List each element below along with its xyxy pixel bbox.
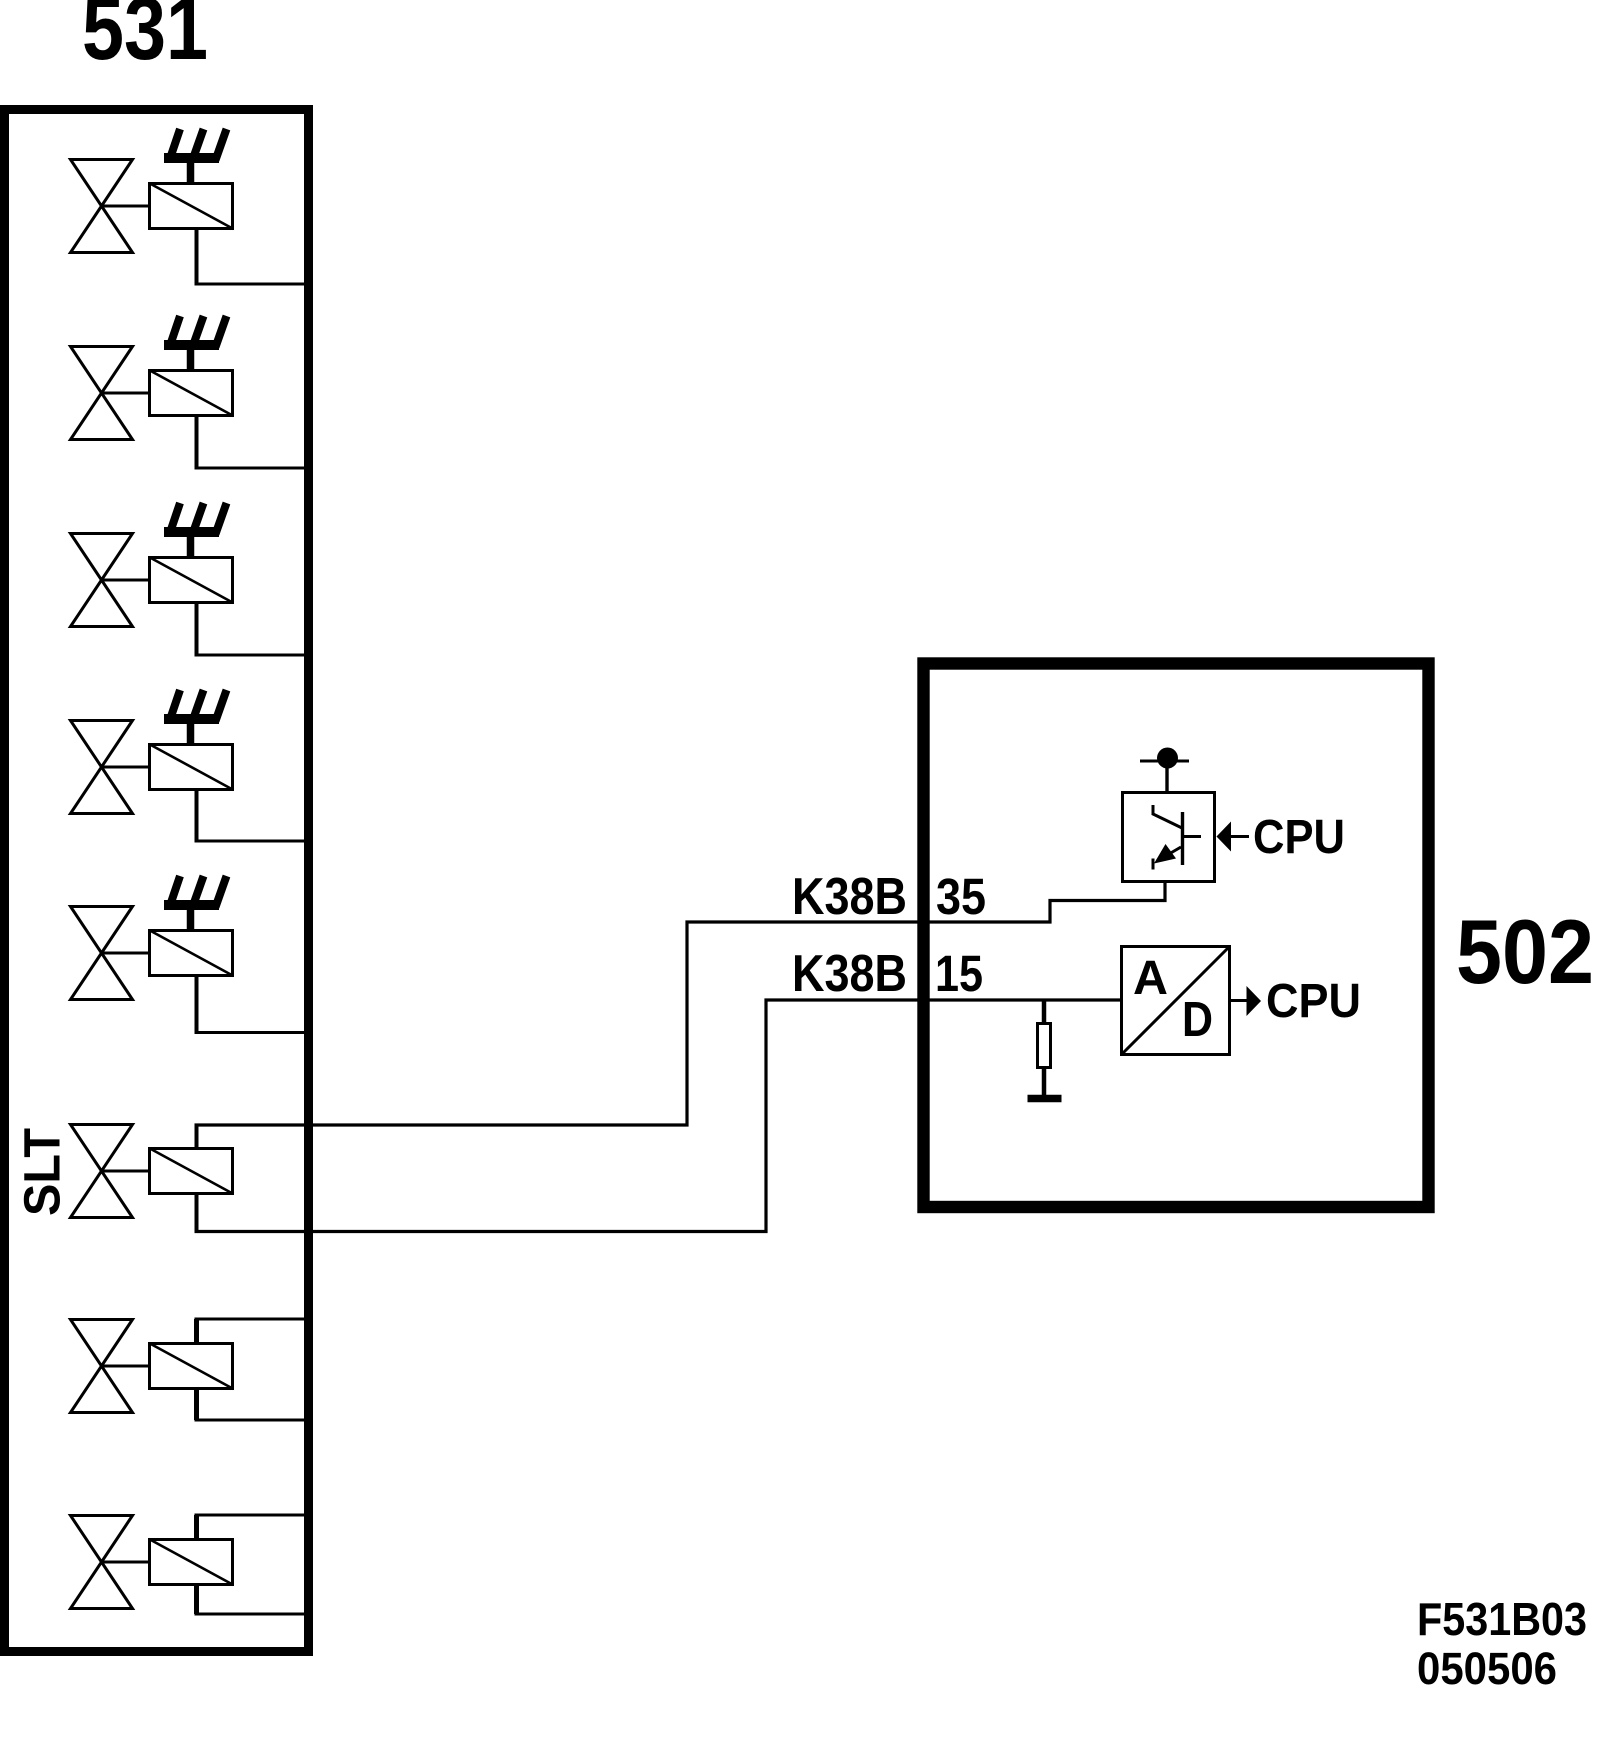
relay coil L7 (box with diagonal)	[149, 1343, 234, 1389]
valve V7 (solenoid valve symbol, two triangles)	[71, 1320, 133, 1413]
pin number 35	[936, 868, 986, 925]
svg-text:A: A	[1133, 952, 1168, 1005]
wire SLT to pin 15 (net K38B-15)	[195, 1000, 1123, 1232]
label A	[1133, 952, 1168, 1005]
relay coil L2 (box with diagonal)	[149, 370, 234, 416]
A/D converter U2	[1122, 947, 1230, 1055]
heater element symbol E5 (trident)	[164, 876, 227, 931]
connector label K38B (pin 35)	[792, 868, 907, 926]
valve V4 (solenoid valve symbol, two triangles)	[71, 721, 133, 814]
valve V2 (solenoid valve symbol, two triangles)	[71, 347, 133, 440]
valve V8 (solenoid valve symbol, two triangles)	[71, 1516, 133, 1609]
svg-text:531: 531	[82, 0, 208, 78]
CPU input arrow to U1	[1217, 822, 1250, 852]
drawing date 050506	[1417, 1643, 1557, 1694]
ECU box 502 (control module)	[924, 664, 1429, 1208]
wire valve V8 to coil L8	[101, 1561, 150, 1564]
valve V3 (solenoid valve symbol, two triangles)	[71, 534, 133, 627]
label CPU (upper)	[1253, 811, 1345, 864]
svg-text:050506: 050506	[1417, 1643, 1557, 1694]
wire coil L2 bottom to box edge	[195, 415, 307, 468]
transistor Q1	[1152, 805, 1201, 870]
wire valve V3 to coil L3	[101, 579, 150, 582]
svg-text:35: 35	[936, 868, 986, 925]
wire coil L5 bottom to box edge	[195, 975, 307, 1033]
wire coil L8 bottom to box edge	[195, 1584, 307, 1614]
label D	[1182, 993, 1213, 1047]
CPU output arrow from U2	[1230, 986, 1261, 1016]
svg-text:CPU: CPU	[1253, 811, 1345, 864]
ground	[1028, 1095, 1062, 1103]
svg-text:F531B03: F531B03	[1417, 1593, 1587, 1645]
relay coil L8 (box with diagonal)	[149, 1539, 234, 1585]
supply node junction dot	[1140, 748, 1189, 769]
wire coil L3 bottom to box edge	[195, 602, 307, 655]
wire SLT to pin 35 (net K38B-35)	[195, 883, 1166, 1125]
valve V6 (solenoid valve symbol, two triangles)	[71, 1125, 133, 1218]
heater element symbol E2 (trident)	[164, 316, 227, 371]
svg-text:D: D	[1182, 993, 1213, 1047]
wire valve V7 to coil L7	[101, 1365, 150, 1368]
label 531	[82, 0, 208, 78]
svg-text:SLT: SLT	[14, 1128, 71, 1216]
wire valve V6 to coil L6	[101, 1170, 150, 1173]
heater element symbol E1 (trident)	[164, 129, 227, 184]
relay coil L4 (box with diagonal)	[149, 744, 234, 790]
wire coil L7 top to box edge	[195, 1319, 307, 1344]
wire coil L8 top to box edge	[195, 1515, 307, 1540]
connector label K38B (pin 15)	[792, 945, 907, 1003]
label SLT (rotated)	[14, 1128, 71, 1216]
wire valve V1 to coil L1	[101, 205, 150, 208]
wire coil L7 bottom to box edge	[195, 1388, 307, 1420]
wire coil L1 bottom to box edge	[195, 228, 307, 284]
resistor R1	[1038, 999, 1051, 1096]
valve V1 (solenoid valve symbol, two triangles)	[71, 160, 133, 253]
heater element symbol E4 (trident)	[164, 690, 227, 745]
wire valve V5 to coil L5	[101, 952, 150, 955]
svg-text:CPU: CPU	[1266, 975, 1361, 1028]
ECU box 531 (left connector housing)	[5, 110, 309, 1652]
label 502	[1456, 902, 1594, 1003]
relay coil L6 (box with diagonal)	[149, 1148, 234, 1194]
label CPU (lower)	[1266, 975, 1361, 1028]
heater element symbol E3 (trident)	[164, 503, 227, 558]
wire valve V2 to coil L2	[101, 392, 150, 395]
svg-text:502: 502	[1456, 902, 1594, 1003]
valve V5 (solenoid valve symbol, two triangles)	[71, 907, 133, 1000]
wire coil L4 bottom to box edge	[195, 789, 307, 841]
wire dot to transistor box	[1165, 768, 1168, 793]
pin number 15	[935, 945, 983, 1002]
wire valve V4 to coil L4	[101, 766, 150, 769]
relay coil L1 (box with diagonal)	[149, 183, 234, 229]
svg-text:K38B: K38B	[792, 868, 907, 926]
wire coil L6 top stub	[195, 1124, 199, 1150]
wire coil L6 bottom stub	[195, 1193, 199, 1230]
output driver box U1	[1123, 793, 1215, 882]
relay coil L5 (box with diagonal)	[149, 930, 234, 976]
drawing id F531B03	[1417, 1593, 1587, 1645]
relay coil L3 (box with diagonal)	[149, 557, 234, 603]
svg-text:K38B: K38B	[792, 945, 907, 1003]
svg-text:15: 15	[935, 945, 983, 1002]
